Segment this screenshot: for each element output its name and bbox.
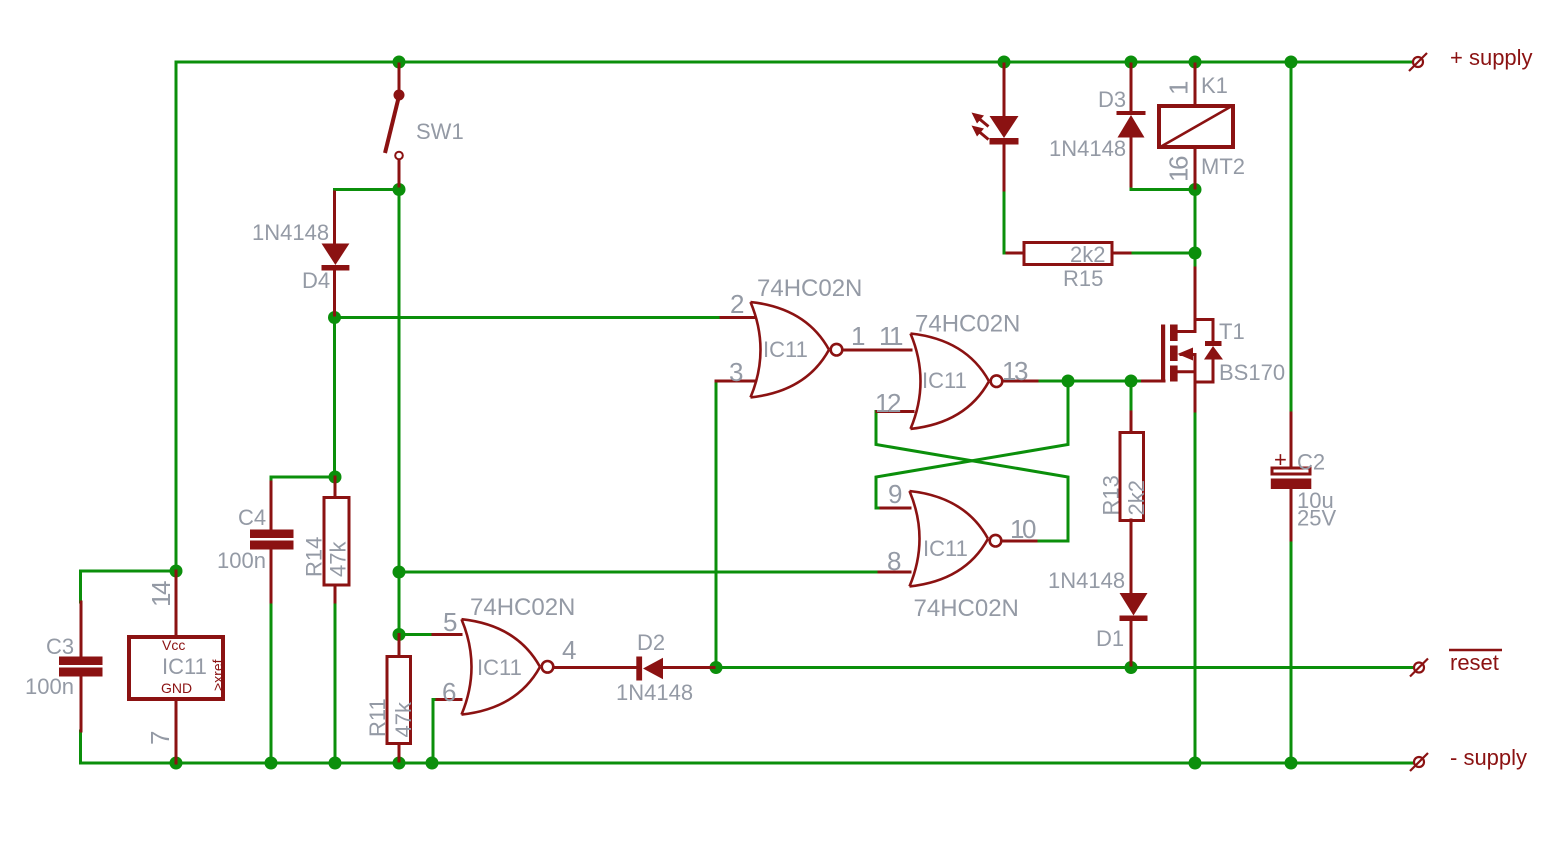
diode D4	[252, 192, 349, 315]
diode D2	[616, 630, 714, 705]
svg-text:D2: D2	[637, 630, 665, 655]
resistor R13	[1099, 412, 1150, 594]
relay K1	[1159, 64, 1245, 188]
svg-text:- supply: - supply	[1450, 745, 1527, 770]
wire R15 to relay column	[1130, 252, 1195, 255]
resistor R15	[1007, 242, 1130, 291]
svg-text:2: 2	[730, 289, 744, 319]
node Vcc pin 14	[170, 565, 183, 578]
svg-text:2k2: 2k2	[1124, 480, 1149, 515]
node ground R14	[329, 757, 342, 770]
node ground R11	[393, 757, 406, 770]
svg-text:100n: 100n	[217, 548, 266, 573]
wire SW1 to D4	[335, 188, 400, 191]
svg-text:1N4148: 1N4148	[616, 680, 693, 705]
op-amp gate IC11C 74HC02N pins 8,9 to 10	[879, 479, 1036, 622]
svg-text:13: 13	[1002, 356, 1028, 386]
op-amp gate IC11B 74HC02N pins 11,12 to 13	[875, 311, 1037, 429]
svg-text:2k2: 2k2	[1070, 242, 1105, 267]
op-amp gate IC11A 74HC02N pins 2,3 to 1	[716, 275, 911, 397]
svg-text:16: 16	[1164, 156, 1194, 182]
wire pin 6 to ground	[433, 700, 439, 764]
wire gate2 out to junction	[1037, 380, 1143, 383]
node pin 8 tap	[393, 566, 406, 579]
IC11 power block	[129, 571, 226, 763]
wire D4 to gate pin 2	[335, 316, 722, 319]
svg-text:3: 3	[729, 357, 743, 387]
node R15 right	[1189, 247, 1202, 260]
node top rail at SW1	[393, 56, 406, 69]
svg-text:1N4148: 1N4148	[1049, 136, 1126, 161]
node reset at D2	[710, 661, 723, 674]
wire latch cross B	[876, 381, 1068, 508]
resistor R14	[302, 477, 351, 602]
transistor T1 BS170	[1143, 268, 1286, 411]
LED	[972, 64, 1019, 190]
svg-text:1N4148: 1N4148	[252, 220, 329, 245]
svg-text:74HC02N: 74HC02N	[915, 311, 1020, 338]
svg-text:+: +	[1274, 447, 1287, 472]
svg-text:C4: C4	[238, 505, 266, 530]
svg-text:9: 9	[888, 479, 902, 509]
svg-text:reset: reset	[1450, 650, 1499, 675]
terminal + supply	[1409, 45, 1533, 71]
wire source to ground	[1194, 411, 1197, 763]
svg-text:T1: T1	[1219, 319, 1245, 344]
svg-text:4: 4	[562, 635, 576, 665]
svg-text:Vcc: Vcc	[162, 637, 185, 653]
node ground T1	[1189, 757, 1202, 770]
svg-text:SW1: SW1	[416, 119, 464, 144]
wire R14 to ground	[334, 602, 337, 763]
svg-text:C2: C2	[1297, 450, 1325, 475]
node ground IC11	[170, 757, 183, 770]
svg-text:D3: D3	[1098, 87, 1126, 112]
svg-text:8: 8	[887, 546, 901, 576]
svg-text:R11: R11	[365, 698, 390, 737]
svg-text:IC11: IC11	[922, 368, 967, 393]
node SW1 bottom	[393, 183, 406, 196]
wire latch cross A	[876, 412, 1068, 542]
svg-text:+ supply: + supply	[1450, 45, 1533, 70]
node ground pin 6	[426, 757, 439, 770]
wire - supply rail	[81, 731, 1413, 763]
wire C2 bottom	[1290, 540, 1293, 763]
svg-text:R14: R14	[302, 537, 327, 577]
svg-text:1: 1	[1164, 81, 1194, 95]
capacitor C4	[217, 482, 294, 602]
wire reset line	[716, 666, 1412, 669]
svg-text:K1: K1	[1201, 73, 1228, 98]
svg-text:12: 12	[875, 388, 901, 418]
wire LED down to R15	[1004, 191, 1007, 254]
wire bus to pin 8	[399, 571, 879, 574]
svg-text:D4: D4	[302, 268, 330, 293]
svg-text:47k: 47k	[326, 541, 351, 577]
node relay MT2	[1189, 183, 1202, 196]
diode D3	[1049, 64, 1146, 186]
wire pin 3 vertical	[716, 381, 722, 668]
wire D3 bottom to relay	[1131, 186, 1195, 190]
wire D4 down to R14	[333, 318, 336, 478]
wire C3 left branch	[81, 571, 177, 602]
diode D1	[1048, 568, 1148, 665]
node R14 top	[329, 471, 342, 484]
node top rail at D3	[1125, 56, 1138, 69]
svg-text:100n: 100n	[25, 674, 74, 699]
node latch Q	[1062, 375, 1075, 388]
svg-text:R15: R15	[1063, 266, 1103, 291]
wire C4 to R14	[271, 477, 335, 482]
node pin 5 tap	[393, 628, 406, 641]
wire relay to drain	[1194, 190, 1197, 269]
node D4 cathode	[328, 311, 341, 324]
capacitor C2	[1271, 413, 1337, 540]
svg-text:R13: R13	[1099, 475, 1124, 515]
svg-text:25V: 25V	[1297, 506, 1336, 531]
svg-text:5: 5	[443, 607, 457, 637]
svg-text:7: 7	[145, 731, 175, 745]
svg-text:IC11: IC11	[477, 655, 522, 680]
svg-text:BS170: BS170	[1219, 360, 1285, 385]
svg-text:IC11: IC11	[162, 654, 207, 679]
svg-text:IC11: IC11	[763, 337, 808, 362]
svg-text:74HC02N: 74HC02N	[757, 275, 862, 302]
op-amp gate IC11D 74HC02N	[433, 594, 637, 715]
svg-text:74HC02N: 74HC02N	[470, 594, 575, 621]
node reset at D1	[1125, 661, 1138, 674]
svg-text:D1: D1	[1096, 626, 1124, 651]
node top rail at C2	[1285, 56, 1298, 69]
resistor R11	[365, 635, 416, 762]
wire bus to pin 5	[399, 633, 433, 636]
svg-text:47k: 47k	[391, 701, 416, 737]
wire C4 to ground	[270, 602, 273, 763]
node top rail at K1	[1189, 56, 1202, 69]
wire + supply rail	[176, 62, 1412, 571]
svg-text:1N4148: 1N4148	[1048, 568, 1125, 593]
terminal - supply	[1410, 745, 1527, 771]
node top rail at LED	[998, 56, 1011, 69]
svg-text:IC11: IC11	[923, 536, 968, 561]
svg-text:14: 14	[146, 581, 176, 607]
LED arrow 1	[972, 113, 985, 124]
svg-text:C3: C3	[46, 634, 74, 659]
switch SW1	[385, 64, 464, 186]
svg-text:1: 1	[851, 321, 865, 351]
wire R13 top	[1130, 381, 1133, 412]
svg-text:11: 11	[879, 321, 903, 351]
svg-text:6: 6	[442, 677, 456, 707]
LED arrow 2	[972, 126, 985, 137]
svg-text:>xref: >xref	[210, 659, 226, 691]
terminal reset	[1410, 650, 1502, 677]
capacitor C3	[25, 602, 103, 731]
node ground C4	[265, 757, 278, 770]
wire SW1 down bus	[398, 190, 401, 635]
svg-text:GND: GND	[161, 680, 192, 696]
node ground C2	[1285, 757, 1298, 770]
node gate T1	[1125, 375, 1138, 388]
svg-text:MT2: MT2	[1201, 154, 1245, 179]
svg-text:74HC02N: 74HC02N	[914, 595, 1019, 622]
svg-text:10: 10	[1010, 514, 1036, 544]
wire C2 top	[1290, 62, 1293, 413]
